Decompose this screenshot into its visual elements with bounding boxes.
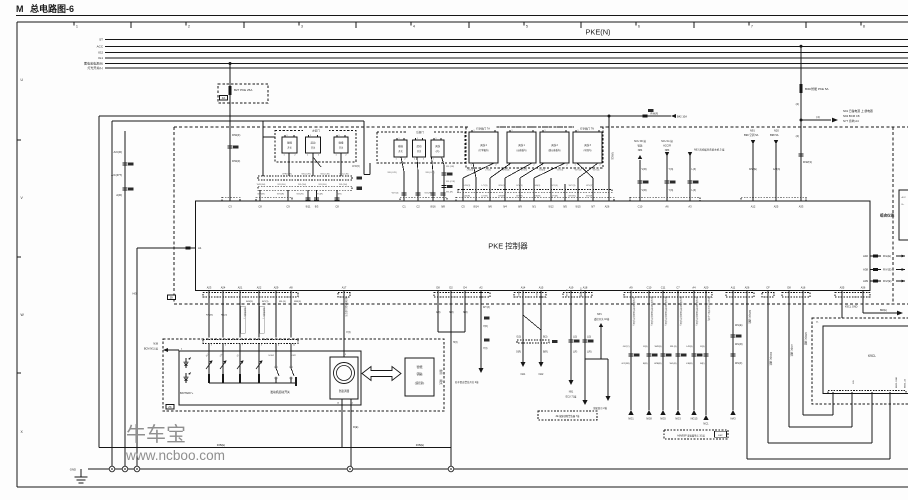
svg-text:B/W(3): B/W(3) <box>499 185 506 187</box>
svg-text:W/R(R): W/R(R) <box>654 363 662 365</box>
svg-text:天线: 天线 <box>435 144 440 148</box>
svg-text:LIN: LIN <box>853 380 855 384</box>
svg-text:N83: N83 <box>665 149 670 152</box>
svg-text:遥控开关 10接: 遥控开关 10接 <box>594 317 610 321</box>
svg-text:IM/G(E) 通信: IM/G(E) 通信 <box>748 310 752 324</box>
svg-text:N38: N38 <box>153 343 158 346</box>
svg-text:1: 1 <box>211 345 212 347</box>
svg-text:9/5: 9/5 <box>563 205 567 209</box>
svg-text:A39: A39 <box>863 279 868 283</box>
svg-text:牛车宝: 牛车宝 <box>126 423 186 446</box>
svg-text:BR(E): BR(E) <box>880 309 887 312</box>
svg-text:A33: A33 <box>799 205 804 209</box>
svg-text:B30/智能 PKE 5A: B30/智能 PKE 5A <box>805 86 829 91</box>
svg-text:1: 1 <box>399 138 400 140</box>
svg-text:N91: N91 <box>569 391 574 394</box>
svg-text:W(R): W(R) <box>336 194 341 196</box>
svg-text:W/L(C/B): W/L(C/B) <box>321 173 330 175</box>
svg-text:L/W(3): L/W(3) <box>467 170 474 172</box>
svg-text:NA3: NA3 <box>730 417 736 421</box>
svg-text:W/L(3H): W/L(3H) <box>298 184 306 186</box>
svg-text:N20: N20 <box>774 129 779 133</box>
svg-text:W/V(R): W/V(R) <box>277 194 284 196</box>
svg-text:起动: 起动 <box>311 141 316 145</box>
svg-text:A18: A18 <box>583 286 588 290</box>
svg-text:W/L(C/R): W/L(C/R) <box>301 173 310 175</box>
svg-text:W/L(C/R): W/L(C/R) <box>425 172 434 174</box>
svg-text:L/B(R): L/B(R) <box>464 196 471 198</box>
svg-text:A38: A38 <box>863 268 868 272</box>
svg-text:G/Y(3): G/Y(3) <box>551 185 558 187</box>
svg-text:PKE(N): PKE(N) <box>585 28 610 37</box>
svg-text:8/9: 8/9 <box>518 205 522 209</box>
svg-text:BCM 9/11 接: BCM 9/11 接 <box>144 347 159 351</box>
svg-text:L(3): L(3) <box>587 337 591 339</box>
svg-text:D4: D4 <box>463 286 467 290</box>
svg-text:R/W(E): R/W(E) <box>749 168 757 171</box>
svg-text:R(F): R(F) <box>700 363 705 365</box>
svg-text:W/R(3): W/R(3) <box>294 301 301 303</box>
svg-text:C8: C8 <box>335 205 339 209</box>
svg-text:智能: 智能 <box>416 364 422 369</box>
svg-text:9/15: 9/15 <box>575 205 581 209</box>
svg-text:8/16: 8/16 <box>430 205 436 209</box>
svg-text:L(F): L(F) <box>573 352 577 354</box>
svg-text:C10: C10 <box>638 205 643 209</box>
svg-text:D8: D8 <box>436 286 440 290</box>
svg-text:W/L(C/R): W/L(C/R) <box>387 172 396 174</box>
svg-text:NG15: NG15 <box>691 417 698 421</box>
svg-text:9/11: 9/11 <box>306 205 311 209</box>
svg-text:碰撞: 碰撞 <box>287 141 292 145</box>
svg-text:全配显示 2接: 全配显示 2接 <box>593 406 608 410</box>
svg-text:A20: A20 <box>704 286 709 290</box>
svg-text:N(3): N(3) <box>449 312 454 314</box>
svg-text:4: 4 <box>225 345 226 347</box>
svg-text:IG2: IG2 <box>98 51 103 55</box>
svg-text:W/L(R): W/L(R) <box>297 194 304 196</box>
svg-text:ZK: ZK <box>168 405 172 409</box>
svg-text:www.ncboo.com: www.ncboo.com <box>125 448 225 463</box>
svg-text:G/B(3): G/B(3) <box>534 185 541 187</box>
svg-text:(遥控匙): (遥控匙) <box>415 381 425 385</box>
svg-text:R/W(F): R/W(F) <box>232 133 240 137</box>
svg-text:C1: C1 <box>402 205 406 209</box>
svg-text:天线 3: 天线 3 <box>584 143 591 147</box>
svg-text:NG3: NG3 <box>675 417 681 421</box>
svg-text:1: 1 <box>287 135 288 137</box>
svg-text:NP1: NP1 <box>597 313 602 316</box>
svg-text:W/L(3H): W/L(3H) <box>277 184 285 186</box>
svg-text:5: 5 <box>526 25 528 29</box>
svg-text:9/8: 9/8 <box>441 205 445 209</box>
svg-text:B/Y(3): B/Y(3) <box>516 185 522 187</box>
svg-text:C29M2: C29M2 <box>535 290 537 298</box>
svg-text:R/Y(3): R/Y(3) <box>483 307 490 309</box>
svg-text:8/14: 8/14 <box>473 205 479 209</box>
svg-text:ST: ST <box>99 37 103 41</box>
svg-text:1: 1 <box>310 135 311 137</box>
svg-text:Y(3): Y(3) <box>483 348 488 350</box>
svg-text:ECU 71接: ECU 71接 <box>566 395 577 399</box>
svg-text:R/Y(E): R/Y(E) <box>883 268 891 272</box>
svg-text:1: 1 <box>76 25 78 29</box>
svg-text:N92 BCM C8: N92 BCM C8 <box>843 114 860 118</box>
svg-text:R/L(E): R/L(E) <box>883 254 891 258</box>
svg-text:N91 日备电源 上 继电器: N91 日备电源 上 继电器 <box>843 109 873 113</box>
svg-text:W/V(3): W/V(3) <box>586 185 593 187</box>
svg-text:L/R(E) 通信: L/R(E) 通信 <box>790 344 794 357</box>
svg-text:R(E): R(E) <box>353 425 358 429</box>
svg-text:A4: A4 <box>692 286 696 290</box>
svg-text:G/B(R): G/B(R) <box>534 196 541 198</box>
svg-text:ACC: ACC <box>97 44 104 48</box>
svg-text:(4): (4) <box>796 102 799 106</box>
svg-text:L(3): L(3) <box>692 189 697 192</box>
svg-text:R/W(3): R/W(3) <box>246 301 253 303</box>
svg-text:W/Y(3): W/Y(3) <box>575 170 582 172</box>
svg-text:R/W(3): R/W(3) <box>232 159 240 163</box>
svg-text:R/B(E): R/B(E) <box>416 443 424 447</box>
svg-text:R/Y(3): R/Y(3) <box>262 301 269 303</box>
svg-text:L(3): L(3) <box>573 337 577 339</box>
svg-text:NG5: NG5 <box>660 417 666 421</box>
svg-text:3: 3 <box>301 25 303 29</box>
svg-text:D8: D8 <box>787 286 791 290</box>
svg-text:W/R(3): W/R(3) <box>655 346 662 348</box>
svg-text:EBCL +B: EBCL +B <box>905 378 907 388</box>
svg-text:备用: 备用 <box>439 369 443 375</box>
svg-text:A26: A26 <box>605 205 610 209</box>
svg-text:A22: A22 <box>257 286 262 290</box>
svg-text:D2: D2 <box>449 286 453 290</box>
svg-text:B42 10A: B42 10A <box>677 114 687 118</box>
svg-text:A2: A2 <box>479 286 483 290</box>
svg-text:B(R): B(R) <box>543 352 548 354</box>
svg-text:C7: C7 <box>676 286 680 290</box>
svg-text:A24: A24 <box>221 286 226 290</box>
svg-text:7: 7 <box>242 345 243 347</box>
svg-text:ZA: ZA <box>222 96 226 100</box>
svg-text:A11: A11 <box>731 286 736 290</box>
svg-text:K9CL: K9CL <box>868 354 876 358</box>
svg-text:SCU 90 接: SCU 90 接 <box>634 139 646 143</box>
svg-text:R/W(3): R/W(3) <box>206 315 213 317</box>
svg-text:Y(R): Y(R) <box>483 326 488 328</box>
svg-text:B/W(3): B/W(3) <box>503 170 510 172</box>
svg-text:A25: A25 <box>774 205 779 209</box>
svg-text:R/W(3): R/W(3) <box>803 160 812 164</box>
svg-text:R(R): R(R) <box>643 363 648 365</box>
svg-text:C3: C3 <box>228 205 232 209</box>
svg-text:G/B(3): G/B(3) <box>539 170 546 172</box>
svg-text:R/W(E) 通信: R/W(E) 通信 <box>804 332 808 346</box>
svg-text:A(3): A(3) <box>436 311 441 314</box>
svg-text:IG1: IG1 <box>98 56 103 60</box>
svg-text:H(3): H(3) <box>453 342 458 344</box>
svg-text:R/W(3): R/W(3) <box>611 152 614 160</box>
svg-text:A/C(P/T): A/C(P/T) <box>111 173 122 177</box>
svg-text:L/Y(3): L/Y(3) <box>482 185 488 187</box>
svg-text:IN/R(E) 通信: IN/R(E) 通信 <box>769 352 773 366</box>
svg-text:R/L(3): R/L(3) <box>221 315 227 317</box>
svg-text:R(3): R(3) <box>643 346 648 348</box>
svg-text:1: 1 <box>436 138 437 140</box>
svg-text:N91: N91 <box>750 129 755 133</box>
svg-text:9/4: 9/4 <box>503 205 507 209</box>
svg-text:A26: A26 <box>745 286 750 290</box>
svg-text:W/L(R): W/L(R) <box>316 194 323 196</box>
svg-text:V(R): V(R) <box>642 189 647 192</box>
svg-text:CF: CF <box>766 286 770 290</box>
svg-text:A36: A36 <box>861 286 866 290</box>
svg-text:蓄电池电源(B): 蓄电池电源(B) <box>84 61 103 66</box>
svg-text:A9: A9 <box>629 286 633 290</box>
svg-text:H/3: H/3 <box>132 292 137 296</box>
svg-text:防盗调器: 防盗调器 <box>339 389 350 393</box>
svg-text:A6: A6 <box>665 205 669 209</box>
svg-text:W/Y(R): W/Y(R) <box>568 196 575 198</box>
svg-text:L/R(R): L/R(R) <box>686 363 693 365</box>
svg-text:W/V(3): W/V(3) <box>593 170 600 172</box>
svg-text:1: 1 <box>339 135 340 137</box>
svg-text:A23: A23 <box>207 286 212 290</box>
svg-text:4: 4 <box>413 25 415 29</box>
svg-text:R/W(F): R/W(F) <box>651 113 659 116</box>
svg-text:W/L(C/R): W/L(C/R) <box>446 181 455 183</box>
svg-text:W/L(3R): W/L(3R) <box>446 166 454 168</box>
svg-text:B/W(R): B/W(R) <box>498 196 505 198</box>
svg-text:A29: A29 <box>274 286 279 290</box>
svg-text:驻车雷达警告开关 2接: 驻车雷达警告开关 2接 <box>455 380 479 384</box>
svg-text:W/L(3H): W/L(3H) <box>339 184 347 186</box>
svg-text:B/Y(3): B/Y(3) <box>521 170 527 172</box>
svg-text:L/Y(R): L/Y(R) <box>481 196 488 198</box>
svg-text:A8: A8 <box>289 286 293 290</box>
svg-text:灯光开关(L): 灯光开关(L) <box>87 65 103 70</box>
svg-text:G/Y(C): G/Y(C) <box>623 346 630 348</box>
svg-text:天线 4: 天线 4 <box>480 143 487 147</box>
svg-text:W/R(R): W/R(R) <box>257 194 265 196</box>
svg-text:B98 5A: B98 5A <box>770 133 779 137</box>
svg-text:G(3): G(3) <box>516 337 521 339</box>
svg-text:N63 音响娱乐系统主机 5 接: N63 音响娱乐系统主机 5 接 <box>694 148 725 152</box>
svg-text:组合仪表: 组合仪表 <box>880 212 895 217</box>
svg-text:左前门: 左前门 <box>312 128 320 132</box>
svg-text:11: 11 <box>293 345 295 347</box>
svg-text:C9: C9 <box>286 205 290 209</box>
svg-text:PKE 控制器: PKE 控制器 <box>488 241 528 251</box>
svg-text:A21: A21 <box>238 286 243 290</box>
svg-text:行李箱门 7A: 行李箱门 7A <box>476 126 490 130</box>
svg-text:C2: C2 <box>416 205 420 209</box>
svg-text:EBCL GND: EBCL GND <box>896 376 898 388</box>
svg-text:L(R): L(R) <box>587 352 592 354</box>
svg-text:W/L(R): W/L(R) <box>735 343 743 346</box>
svg-text:K9CL GND: K9CL GND <box>845 306 858 309</box>
svg-text:7: 7 <box>751 25 753 29</box>
svg-text:碰撞: 碰撞 <box>398 144 403 148</box>
svg-text:9/3: 9/3 <box>315 205 319 209</box>
svg-text:W/L(E): W/L(E) <box>735 324 743 327</box>
svg-text:E6P: E6P <box>718 435 723 437</box>
svg-text:ACC: ACC <box>902 196 907 199</box>
svg-text:碰撞: 碰撞 <box>339 141 344 145</box>
svg-text:5: 5 <box>261 345 262 347</box>
svg-text:G/Y(3): G/Y(3) <box>557 170 564 172</box>
svg-text:A35: A35 <box>840 286 845 290</box>
svg-text:GND: GND <box>70 468 76 472</box>
svg-text:W/R(C/R): W/R(C/R) <box>282 173 292 175</box>
svg-text:S W4: S W4 <box>268 355 274 357</box>
svg-text:(4): (4) <box>816 115 819 119</box>
svg-text:M: M <box>16 4 24 14</box>
svg-text:行李箱门 7N: 行李箱门 7N <box>580 126 594 130</box>
svg-text:R/B(E): R/B(E) <box>217 443 225 447</box>
svg-text:S W2: S W2 <box>290 355 296 357</box>
svg-text:W/L(F): W/L(F) <box>735 362 743 365</box>
svg-text:C8: C8 <box>258 205 262 209</box>
svg-text:NC1: NC1 <box>703 422 709 426</box>
svg-text:NA2: NA2 <box>539 373 544 376</box>
svg-text:C5: C5 <box>461 205 465 209</box>
svg-text:C10: C10 <box>647 286 652 290</box>
svg-text:Y(3): Y(3) <box>669 168 674 171</box>
svg-text:A3: A3 <box>688 205 692 209</box>
svg-text:B27 PKE 25A: B27 PKE 25A <box>234 88 252 92</box>
svg-text:N84: N84 <box>638 149 643 152</box>
svg-text:NG1: NG1 <box>628 417 634 421</box>
svg-text:8: 8 <box>863 25 865 29</box>
svg-text:L/R(3): L/R(3) <box>686 346 692 348</box>
svg-text:A40: A40 <box>863 254 868 258</box>
svg-text:B(3): B(3) <box>543 337 548 339</box>
svg-text:A(R): A(R) <box>116 193 122 197</box>
svg-text:W/L(C/B): W/L(C/B) <box>340 173 349 175</box>
svg-text:A19: A19 <box>569 286 574 290</box>
svg-text:K_LINE: K_LINE <box>565 289 567 297</box>
svg-text:后备门: 后备门 <box>416 130 424 134</box>
svg-text:A/C(R): A/C(R) <box>113 150 122 154</box>
svg-text:钥匙: 钥匙 <box>416 371 422 376</box>
svg-text:W/L(R): W/L(R) <box>446 192 453 194</box>
svg-text:A16: A16 <box>801 286 806 290</box>
svg-text:G/R(3): G/R(3) <box>773 168 780 171</box>
svg-text:9/7: 9/7 <box>591 205 595 209</box>
svg-text:G(R): G(R) <box>516 352 521 354</box>
svg-text:W/L(3): W/L(3) <box>279 301 286 303</box>
svg-text:G/Y(3R): G/Y(3R) <box>621 363 629 365</box>
svg-text:9/12: 9/12 <box>548 205 554 209</box>
svg-text:N77 音响 A4: N77 音响 A4 <box>843 119 859 123</box>
svg-text:SCU 11 接: SCU 11 接 <box>661 139 673 143</box>
svg-text:(4): (4) <box>796 134 799 138</box>
svg-text:W/L(3H): W/L(3H) <box>318 184 326 186</box>
svg-text:W/L(3): W/L(3) <box>670 346 677 348</box>
svg-text:ZK: ZK <box>170 296 174 300</box>
svg-text:发动机起动开关: 发动机起动开关 <box>270 390 290 394</box>
svg-text:W/V(R): W/V(R) <box>586 196 593 198</box>
svg-text:1: 1 <box>578 130 579 132</box>
svg-text:Y(3): Y(3) <box>346 331 351 334</box>
svg-text:天线 2: 天线 2 <box>551 143 558 147</box>
svg-text:G/Y(R): G/Y(R) <box>551 196 558 198</box>
svg-text:C11: C11 <box>661 286 666 290</box>
svg-text:R(3): R(3) <box>700 346 705 348</box>
svg-text:Y(3): Y(3) <box>669 189 674 192</box>
svg-text:1: 1 <box>512 130 513 132</box>
svg-text:W/Y(3): W/Y(3) <box>569 185 576 187</box>
svg-text:起动: 起动 <box>417 144 422 148</box>
svg-text:R/V(E): R/V(E) <box>883 279 891 283</box>
svg-text:C29M1: C29M1 <box>517 290 519 298</box>
svg-text:NG8: NG8 <box>646 417 652 421</box>
svg-text:L/Y(3): L/Y(3) <box>485 170 491 172</box>
svg-text:9/6: 9/6 <box>488 205 492 209</box>
svg-text:6: 6 <box>638 25 640 29</box>
svg-text:L/W(3): L/W(3) <box>464 185 471 187</box>
svg-text:总电路图-6: 总电路图-6 <box>30 3 74 14</box>
svg-text:模式: 模式 <box>439 379 443 385</box>
svg-text:W/L(R): W/L(R) <box>670 363 677 365</box>
svg-text:1: 1 <box>474 130 475 132</box>
svg-text:NA1: NA1 <box>521 373 526 376</box>
svg-text:BATTERY+: BATTERY+ <box>180 391 194 395</box>
svg-text:W/V(3): W/V(3) <box>392 193 399 195</box>
svg-text:B99 空调 5A: B99 空调 5A <box>744 133 759 137</box>
svg-text:1: 1 <box>417 138 418 140</box>
svg-text:N(3): N(3) <box>463 312 468 314</box>
svg-text:V(R): V(R) <box>642 168 647 171</box>
svg-text:A1: A1 <box>198 246 202 250</box>
svg-text:1: 1 <box>545 130 546 132</box>
svg-text:A12: A12 <box>751 205 756 209</box>
svg-text:2: 2 <box>188 25 190 29</box>
svg-text:A15: A15 <box>539 286 544 290</box>
svg-text:B/Y(R): B/Y(R) <box>516 196 523 198</box>
svg-text:A17: A17 <box>342 286 347 290</box>
svg-text:ACC/R: ACC/R <box>663 145 671 148</box>
svg-text:L(3): L(3) <box>692 168 697 171</box>
svg-text:4: 4 <box>278 345 279 347</box>
svg-text:9/1: 9/1 <box>532 205 536 209</box>
svg-text:W/R(3H): W/R(3H) <box>257 184 266 186</box>
svg-text:天线 1: 天线 1 <box>518 143 525 147</box>
svg-text:A14: A14 <box>521 286 526 290</box>
svg-text:钥匙: 钥匙 <box>637 144 643 148</box>
svg-text:W/R(R): W/R(R) <box>352 165 360 168</box>
